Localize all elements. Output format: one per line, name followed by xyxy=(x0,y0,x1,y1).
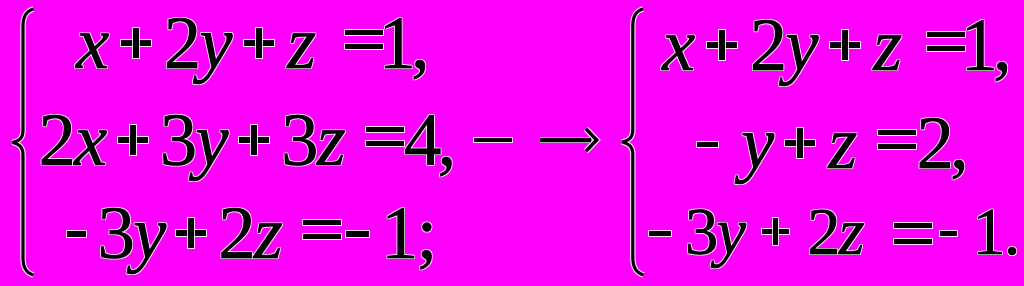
left system brace xyxy=(0,0,60,286)
minus dash between systems xyxy=(474,138,512,143)
equation line R3: - 3y + 2z = - 1. xyxy=(649,199,1018,266)
equation line L1: x + 2y + z = 1, xyxy=(76,6,425,81)
equation line R1: x + 2y + z = 1, xyxy=(662,8,1007,83)
equation line R2: - y + z = 2, xyxy=(697,106,965,181)
equation line L3: - 3y + 2z = - 1; xyxy=(67,196,436,271)
right system brace xyxy=(610,0,670,286)
equation line L2: 2x + 3y + 3z = 4, xyxy=(39,103,453,178)
long arrow between systems xyxy=(536,122,606,158)
